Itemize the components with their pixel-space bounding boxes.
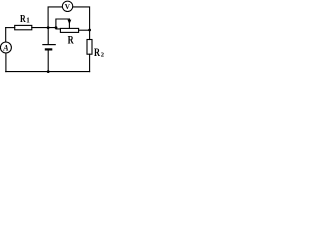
wire voltmeter left lead (node A up and right to circle) [48,7,62,28]
node C junction dot [88,29,91,32]
voltmeter V circle [62,1,72,11]
rheostat R box [60,28,78,32]
svg-text:A: A [2,44,9,53]
resistor R1 [15,25,32,29]
wire battery top lead (node A down to plate) [47,28,49,45]
wire voltmeter right lead (circle right, over and down to node C) [73,7,90,30]
battery short plate (negative) [46,48,51,50]
wire ammeter to bottom-left corner [5,53,7,72]
wire R1 right terminal to node A and node B [32,27,56,29]
ammeter A circle [0,42,11,53]
battery bottom junction dot [47,70,50,73]
rheostat R slider arm wire (node B up, across above box) [56,19,70,28]
wire R2 bottom to bottom-right corner [89,54,91,71]
svg-text:V: V [65,3,71,11]
node A junction dot [47,26,50,29]
wire bottom [6,71,90,73]
svg-text:R2: R2 [94,45,104,59]
wire node B step to rheostat left terminal [56,28,60,29]
wire battery bottom lead to bottom wire [47,50,49,71]
wire node C down to R2 top [89,30,91,40]
node B junction dot [55,26,58,29]
svg-text:R1: R1 [20,14,30,25]
wire top-left (corner to R1 left terminal) [6,27,15,29]
battery long plate (positive) [43,44,55,46]
svg-text:R: R [68,32,74,46]
wire left side (top-left corner down to ammeter) [5,28,7,42]
wire rheostat right terminal to node C [79,29,90,31]
resistor R2 [87,40,92,55]
rheostat R slider arrowhead [68,20,72,25]
rheostat R slider arrow shaft [68,19,70,28]
